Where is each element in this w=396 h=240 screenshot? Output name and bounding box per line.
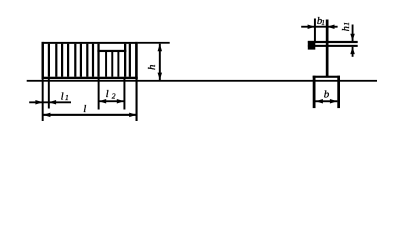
- arrow h1 up: [350, 47, 355, 54]
- hatch line 4: [67, 44, 69, 77]
- inner hatch line 3: [117, 52, 119, 77]
- arrow l1 outside-left: [35, 100, 42, 105]
- hatch line 7: [86, 44, 88, 77]
- hatch line 6: [80, 44, 82, 77]
- plate line (long horizontal): [27, 80, 377, 82]
- weld box right edge: [135, 42, 138, 79]
- hatch line 8: [92, 44, 94, 77]
- arrow h down: [158, 73, 163, 80]
- svg-text:h: h: [146, 64, 158, 70]
- weld box left edge: [42, 42, 44, 79]
- extension line l1 right: [48, 79, 50, 109]
- arrow l left: [43, 113, 50, 118]
- dimension line b: [315, 100, 337, 102]
- inner hatch line 2: [111, 52, 113, 77]
- rib web line: [326, 20, 329, 77]
- h top extension line: [138, 42, 170, 44]
- svg-text:l: l: [61, 90, 64, 102]
- dimension line l2: [99, 100, 125, 102]
- weld fill block: [308, 41, 316, 50]
- svg-text:1: 1: [321, 19, 325, 27]
- extension line l2 right: [123, 79, 125, 110]
- dimension line l: [43, 114, 136, 116]
- extension line right (l): [136, 79, 138, 121]
- weld box top line: [42, 42, 138, 44]
- arrow h1 down: [350, 34, 355, 41]
- base box right wall: [337, 76, 340, 108]
- svg-text:b: b: [324, 89, 330, 101]
- dimension line h1 lower: [352, 47, 354, 57]
- dimension line l1: [29, 101, 71, 103]
- arrow l right: [129, 113, 136, 118]
- flange bottom line B: [308, 45, 358, 47]
- hatch line 9: [129, 44, 131, 77]
- base box top line: [313, 76, 340, 78]
- inner hatch line 1: [105, 52, 107, 77]
- weld box bottom line: [42, 77, 138, 79]
- arrow l2 left: [99, 99, 106, 104]
- hatch line 3: [61, 44, 63, 77]
- inner notch left wall: [97, 44, 99, 77]
- b1 extension line left: [314, 19, 316, 42]
- svg-text:2: 2: [112, 92, 116, 101]
- arrow l1 outside-right: [49, 100, 56, 105]
- svg-text:1: 1: [342, 22, 351, 26]
- svg-text:l: l: [83, 103, 86, 115]
- hatch line 2: [55, 44, 57, 77]
- dimension line h: [159, 44, 161, 80]
- hatch line 5: [74, 44, 76, 77]
- arrow b right: [330, 99, 337, 104]
- arrow b1 outside-left: [308, 24, 315, 29]
- arrow b left: [316, 99, 323, 104]
- base box left wall: [313, 76, 316, 108]
- extension line l2 left: [98, 79, 100, 110]
- arrow l2 right: [117, 99, 124, 104]
- arrow b1 outside-right: [327, 24, 334, 29]
- inner notch right wall: [124, 44, 126, 77]
- hatch line 1: [48, 44, 50, 77]
- dimension line b1: [301, 26, 337, 28]
- inner notch top line: [97, 50, 126, 52]
- svg-text:1: 1: [65, 93, 69, 102]
- extension line left (l / l1): [42, 79, 44, 121]
- svg-text:h: h: [341, 26, 352, 31]
- svg-text:l: l: [106, 88, 109, 100]
- flange top line A: [308, 41, 358, 43]
- dimension line h1 upper: [352, 25, 354, 42]
- arrow h up: [158, 44, 163, 51]
